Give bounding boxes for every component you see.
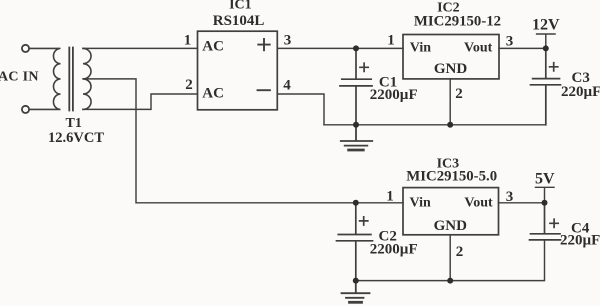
svg-text:1: 1 bbox=[386, 189, 394, 205]
svg-text:2: 2 bbox=[455, 86, 463, 102]
svg-text:Vin: Vin bbox=[410, 41, 431, 56]
svg-text:1: 1 bbox=[387, 32, 395, 48]
svg-text:2: 2 bbox=[456, 244, 464, 260]
wire: secondary bottom to IC1 pin 2 bbox=[83, 94, 198, 109]
capacitor C2 bbox=[337, 203, 373, 281]
junction node: 5V/C4 top bbox=[542, 200, 548, 206]
svg-text:5V: 5V bbox=[535, 171, 555, 188]
wire: IC1 pin 4 down to ground rail bbox=[277, 94, 324, 125]
svg-text:MIC29150-5.0: MIC29150-5.0 bbox=[406, 169, 497, 185]
AC IN terminal bottom bbox=[22, 106, 29, 113]
transformer T1 secondary winding bbox=[83, 48, 91, 109]
svg-text:3: 3 bbox=[284, 32, 292, 48]
svg-text:Vout: Vout bbox=[464, 196, 493, 211]
svg-text:3: 3 bbox=[506, 189, 514, 205]
junction node: C2 bottom bbox=[353, 278, 359, 284]
capacitor C3 bbox=[531, 48, 561, 124]
svg-text:MIC29150-12: MIC29150-12 bbox=[414, 14, 501, 30]
junction node: C1 bottom bbox=[353, 122, 359, 128]
wire: IC1 pin 3 to IC2 Vin bbox=[277, 47, 403, 49]
svg-text:2200µF: 2200µF bbox=[370, 241, 418, 257]
svg-text:1: 1 bbox=[184, 33, 192, 49]
upper ground symbol bbox=[341, 125, 372, 146]
5V terminal bbox=[536, 187, 555, 203]
bridge rectifier IC1 box bbox=[198, 31, 278, 110]
wire: IC3 GND pin 2 bbox=[449, 235, 451, 281]
svg-text:RS104L: RS104L bbox=[213, 13, 265, 29]
minus sign inside IC1 bbox=[258, 89, 270, 91]
junction node: IC2 GND rail bbox=[447, 122, 453, 128]
plus polarity mark C1 bbox=[360, 63, 368, 71]
wire: IC2 GND pin 2 bbox=[449, 79, 451, 125]
svg-text:AC IN: AC IN bbox=[0, 69, 39, 84]
plus polarity mark C3 bbox=[550, 63, 558, 71]
capacitor C1 bbox=[340, 48, 372, 124]
svg-text:3: 3 bbox=[506, 34, 514, 50]
svg-text:12.6VCT: 12.6VCT bbox=[48, 130, 104, 146]
svg-text:T1: T1 bbox=[66, 116, 82, 131]
svg-text:4: 4 bbox=[283, 77, 291, 93]
capacitor C4 bbox=[530, 203, 561, 240]
AC IN terminal top bbox=[22, 45, 29, 52]
svg-text:2200µF: 2200µF bbox=[370, 87, 418, 103]
wire: IC3 Vout to 5V node bbox=[499, 202, 545, 204]
svg-text:AC: AC bbox=[202, 38, 224, 54]
svg-text:12V: 12V bbox=[532, 17, 560, 34]
12V terminal bbox=[537, 34, 555, 48]
wire: IC2 Vout to 12V node bbox=[499, 47, 546, 49]
svg-text:Vin: Vin bbox=[410, 196, 431, 211]
regulator IC3 box bbox=[403, 188, 499, 235]
upper ground rail bbox=[324, 85, 546, 125]
junction node: C1 top bbox=[353, 45, 359, 51]
svg-text:220µF: 220µF bbox=[560, 233, 600, 249]
wire: secondary top to IC1 pin 1 bbox=[83, 47, 198, 49]
plus polarity mark C4 bbox=[550, 219, 558, 227]
lower ground symbol bbox=[342, 281, 370, 298]
junction node: C2 top bbox=[353, 200, 359, 206]
svg-text:AC: AC bbox=[202, 86, 224, 102]
junction node: 12V/C3 top bbox=[543, 45, 549, 51]
plus sign inside IC1 bbox=[258, 39, 269, 50]
svg-text:2: 2 bbox=[185, 77, 193, 93]
svg-text:GND: GND bbox=[434, 218, 468, 234]
regulator IC2 box bbox=[403, 35, 499, 79]
plus polarity mark C2 bbox=[360, 217, 368, 225]
svg-text:IC1: IC1 bbox=[229, 0, 252, 12]
wire: center tap down to IC3 Vin rail bbox=[83, 79, 403, 203]
lower ground rail bbox=[356, 240, 545, 281]
svg-text:220µF: 220µF bbox=[561, 84, 600, 100]
svg-text:GND: GND bbox=[434, 61, 468, 77]
transformer T1 primary winding bbox=[29, 48, 60, 109]
junction node: IC3 GND rail bbox=[447, 278, 453, 284]
svg-text:Vout: Vout bbox=[464, 41, 493, 56]
transformer core bbox=[69, 48, 73, 111]
